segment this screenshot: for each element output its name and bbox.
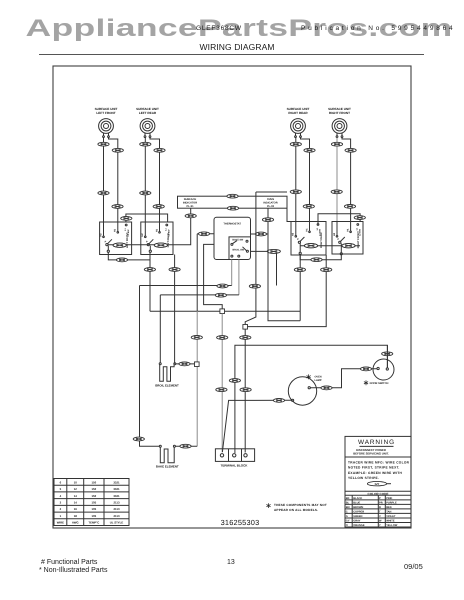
- svg-text:YELLOW: YELLOW: [386, 524, 398, 527]
- svg-text:H2: H2: [292, 232, 295, 236]
- svg-text:18: 18: [74, 514, 78, 518]
- svg-text:THESE COMPONENTS MAY NOT: THESE COMPONENTS MAY NOT: [274, 503, 327, 507]
- svg-text:P: P: [297, 238, 299, 241]
- svg-text:RIGHT REAR: RIGHT REAR: [288, 111, 308, 115]
- svg-text:LEFT REAR: LEFT REAR: [139, 111, 157, 115]
- svg-text:APPEAR ON ALL MODELS.: APPEAR ON ALL MODELS.: [274, 508, 318, 512]
- svg-text:ORANGE: ORANGE: [353, 524, 365, 527]
- svg-text:3321: 3321: [113, 480, 120, 484]
- svg-text:6: 6: [60, 480, 62, 484]
- svg-text:BROIL ELEMENT: BROIL ELEMENT: [155, 384, 179, 388]
- svg-text:TERMINAL BLOCK: TERMINAL BLOCK: [221, 464, 249, 468]
- svg-text:105: 105: [92, 507, 97, 511]
- svg-text:NOTED FIRST, STRIPE NEXT.: NOTED FIRST, STRIPE NEXT.: [348, 466, 400, 470]
- svg-text:BK: BK: [346, 497, 350, 500]
- svg-text:G: G: [346, 515, 348, 518]
- svg-text:COPPER: COPPER: [353, 511, 364, 514]
- svg-text:BROWN: BROWN: [353, 506, 363, 509]
- svg-text:PL-91: PL-91: [186, 205, 194, 208]
- svg-text:INDICATOR: INDICATOR: [183, 202, 197, 205]
- svg-text:PURPLE: PURPLE: [386, 501, 397, 504]
- svg-text:UL STYLE: UL STYLE: [110, 521, 124, 525]
- svg-text:PR: PR: [379, 501, 383, 504]
- svg-text:H1: H1: [346, 228, 349, 232]
- svg-text:BL: BL: [346, 501, 350, 504]
- svg-text:TRACER WIRE MFG: WIRE COLOR: TRACER WIRE MFG: WIRE COLOR: [348, 460, 410, 464]
- svg-text:4: 4: [60, 494, 62, 498]
- svg-text:2: 2: [60, 507, 62, 511]
- svg-text:RIGHT FRONT: RIGHT FRONT: [329, 111, 350, 115]
- svg-text:2113: 2113: [113, 507, 120, 511]
- svg-text:12: 12: [74, 487, 78, 491]
- svg-text:BLACK: BLACK: [353, 497, 362, 500]
- svg-text:WARNING: WARNING: [358, 439, 395, 446]
- svg-text:Y: Y: [379, 524, 381, 527]
- svg-text:316255303: 316255303: [221, 518, 260, 527]
- svg-text:L1: L1: [356, 227, 359, 230]
- svg-text:TAN: TAN: [386, 511, 391, 514]
- svg-text:3321: 3321: [113, 494, 120, 498]
- svg-text:150: 150: [92, 480, 97, 484]
- svg-text:O: O: [346, 524, 348, 527]
- svg-text:V: V: [379, 515, 381, 518]
- svg-text:16: 16: [74, 507, 78, 511]
- svg-text:WHITE: WHITE: [386, 520, 395, 523]
- svg-text:150: 150: [92, 487, 97, 491]
- svg-text:3321: 3321: [113, 487, 120, 491]
- svg-text:RED: RED: [386, 506, 392, 509]
- svg-text:BAKE SW: BAKE SW: [232, 238, 244, 241]
- svg-text:105: 105: [92, 500, 97, 504]
- svg-text:150: 150: [92, 494, 97, 498]
- svg-text:GRAY: GRAY: [353, 520, 361, 523]
- svg-text:VIOLET: VIOLET: [386, 515, 396, 518]
- svg-text:P: P: [337, 238, 339, 241]
- svg-text:14: 14: [74, 494, 78, 498]
- svg-text:H2: H2: [333, 232, 336, 236]
- svg-text:BN: BN: [346, 506, 350, 509]
- svg-text:G/Y: G/Y: [375, 482, 380, 486]
- svg-text:1: 1: [60, 514, 62, 518]
- svg-text:2113: 2113: [113, 500, 120, 504]
- svg-text:L1: L1: [165, 227, 168, 230]
- svg-text:P: P: [105, 240, 107, 243]
- svg-text:THERMOSTAT: THERMOSTAT: [223, 223, 241, 226]
- svg-text:LEFT FRONT: LEFT FRONT: [96, 111, 115, 115]
- svg-text:WIRE: WIRE: [57, 521, 64, 525]
- svg-text:P: P: [379, 497, 381, 500]
- svg-text:PINK: PINK: [386, 497, 392, 500]
- svg-text:L1: L1: [124, 227, 127, 230]
- svg-text:H1: H1: [114, 228, 117, 232]
- svg-text:14: 14: [74, 500, 78, 504]
- svg-text:AWG: AWG: [72, 521, 79, 525]
- svg-text:10: 10: [74, 480, 78, 484]
- svg-text:DOOR SWITCH: DOOR SWITCH: [370, 382, 389, 385]
- svg-text:YELLOW STRIPE.: YELLOW STRIPE.: [348, 476, 379, 480]
- svg-text:BLUE: BLUE: [353, 501, 360, 504]
- svg-text:INDICATOR: INDICATOR: [263, 202, 277, 205]
- svg-text:EXAMPLE: GREEN WIRE WITH: EXAMPLE: GREEN WIRE WITH: [348, 471, 403, 475]
- svg-text:BROIL SW: BROIL SW: [232, 249, 244, 252]
- svg-text:TEMP°C: TEMP°C: [88, 521, 99, 525]
- svg-text:H1: H1: [305, 228, 308, 232]
- svg-text:BEFORE SERVICING UNIT.: BEFORE SERVICING UNIT.: [353, 452, 389, 456]
- svg-text:5: 5: [60, 487, 62, 491]
- svg-text:H1: H1: [155, 228, 158, 232]
- svg-text:PL-92: PL-92: [267, 205, 275, 208]
- svg-text:105: 105: [92, 514, 97, 518]
- svg-text:GY: GY: [346, 520, 350, 523]
- svg-text:R: R: [379, 506, 381, 509]
- svg-text:LAMP: LAMP: [314, 379, 321, 382]
- svg-text:3: 3: [60, 500, 62, 504]
- svg-text:BAKE ELEMENT: BAKE ELEMENT: [156, 465, 179, 469]
- svg-text:P: P: [146, 240, 148, 243]
- svg-text:GREEN: GREEN: [353, 515, 362, 518]
- svg-text:C: C: [346, 511, 348, 514]
- svg-text:2113: 2113: [113, 514, 120, 518]
- svg-text:H2: H2: [141, 233, 144, 237]
- svg-text:L1: L1: [316, 227, 319, 230]
